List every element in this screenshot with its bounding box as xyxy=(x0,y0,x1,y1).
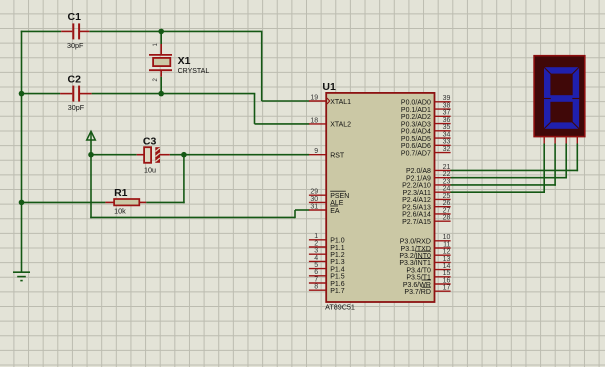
svg-text:P0.1/AD1: P0.1/AD1 xyxy=(401,107,431,114)
svg-text:AT89C51: AT89C51 xyxy=(325,303,355,312)
wire XTAL1 horizontal to pin 19 xyxy=(262,100,310,102)
junction power arrow / RST node xyxy=(88,152,94,158)
pin 14 P3.4/T0 (right) xyxy=(406,263,450,274)
pin 39 P0.0/AD0 (right) xyxy=(401,95,451,106)
pin 30 ALE (left) xyxy=(309,196,344,207)
svg-text:P0.6/AD6: P0.6/AD6 xyxy=(401,143,431,150)
svg-text:15: 15 xyxy=(443,270,451,277)
svg-text:11: 11 xyxy=(443,241,450,248)
wire XTAL2 vertical drop xyxy=(254,94,256,124)
svg-text:5: 5 xyxy=(314,262,318,269)
svg-text:P0.5/AD5: P0.5/AD5 xyxy=(401,136,431,143)
pin 24 P2.3/A11 (right) xyxy=(403,186,451,197)
svg-text:P2.4/A12: P2.4/A12 xyxy=(402,197,431,204)
svg-text:35: 35 xyxy=(443,124,451,131)
wire EA row horizontal xyxy=(90,216,295,218)
svg-text:29: 29 xyxy=(310,189,318,196)
pin 34 P0.5/AD5 (right) xyxy=(401,132,451,143)
svg-text:36: 36 xyxy=(443,117,451,124)
wire left ground rail vertical xyxy=(21,31,23,273)
clock chevron on pin XTAL1 xyxy=(327,98,330,104)
pin 4 P1.3 (left) xyxy=(309,255,345,266)
svg-text:RST: RST xyxy=(330,153,345,160)
wire P2.3 to display pin xyxy=(450,191,545,193)
capacitor C1 xyxy=(61,23,89,39)
svg-text:37: 37 xyxy=(443,110,451,117)
capacitor C2 xyxy=(60,86,92,102)
pin 25 P2.4/A12 (right) xyxy=(402,193,451,204)
wire power arrow vertical xyxy=(90,140,92,218)
pin 3 P1.2 (left) xyxy=(309,248,345,259)
pin 16 P3.6/WR (right) xyxy=(403,277,451,288)
pin 18 XTAL2 (left) xyxy=(309,117,351,128)
svg-text:XTAL1: XTAL1 xyxy=(330,99,351,106)
pin 11 P3.1/TXD (right) xyxy=(401,241,451,252)
pin 2 P1.1 (left) xyxy=(309,240,345,251)
svg-text:18: 18 xyxy=(310,117,318,124)
wire C1 row right segment to XTAL1 corner xyxy=(89,30,262,32)
svg-text:PSEN: PSEN xyxy=(330,193,349,200)
wire display pin 1 vertical xyxy=(543,144,545,193)
pin 23 P2.2/A10 (right) xyxy=(402,178,451,189)
svg-text:P1.7: P1.7 xyxy=(330,288,345,295)
pin 31 EA (left) xyxy=(309,203,340,214)
wire XTAL1 vertical drop xyxy=(261,31,263,101)
IC U1 AT89C51 body xyxy=(326,93,434,302)
svg-text:P1.5: P1.5 xyxy=(330,274,345,281)
svg-text:P1.3: P1.3 xyxy=(330,259,345,266)
pin 6 P1.5 (left) xyxy=(309,269,345,280)
svg-text:9: 9 xyxy=(314,148,318,155)
display pin 2 stub xyxy=(554,137,556,144)
wire RST row from C3 to pin 9 xyxy=(170,154,310,156)
svg-text:P2.2/A10: P2.2/A10 xyxy=(402,183,431,190)
svg-text:P0.3/AD3: P0.3/AD3 xyxy=(401,121,431,128)
svg-text:XTAL2: XTAL2 xyxy=(330,122,351,129)
svg-text:22: 22 xyxy=(443,171,451,178)
segment digit 8 (all segments) xyxy=(547,70,576,125)
pin 9 RST (left) xyxy=(309,148,345,159)
svg-text:P1.0: P1.0 xyxy=(330,238,345,245)
svg-text:10k: 10k xyxy=(114,206,126,215)
wire C2 row right segment to XTAL2 corner xyxy=(92,93,256,95)
wire C3 junction down to R1 row xyxy=(183,155,185,204)
svg-text:1: 1 xyxy=(314,233,318,240)
svg-text:P1.4: P1.4 xyxy=(330,266,345,273)
svg-text:10: 10 xyxy=(443,234,451,241)
svg-text:24: 24 xyxy=(443,186,451,193)
pin 37 P0.2/AD2 (right) xyxy=(401,110,451,121)
svg-text:P3.5/T1: P3.5/T1 xyxy=(406,275,431,282)
junction C3 right / R1 node xyxy=(181,152,187,158)
display pin 3 stub xyxy=(565,137,567,144)
svg-text:14: 14 xyxy=(443,263,451,270)
pin 13 P3.3/INT1 (right) xyxy=(399,256,450,267)
svg-text:P3.0/RXD: P3.0/RXD xyxy=(400,239,431,246)
svg-text:34: 34 xyxy=(443,132,451,139)
wire EA to pin 31 xyxy=(295,209,309,211)
svg-text:30: 30 xyxy=(310,196,318,203)
wire P2.2 to display pin xyxy=(450,184,556,186)
svg-text:P2.0/A8: P2.0/A8 xyxy=(406,168,431,175)
svg-text:3: 3 xyxy=(314,248,318,255)
svg-text:33: 33 xyxy=(443,139,451,146)
svg-text:4: 4 xyxy=(314,255,318,262)
svg-text:28: 28 xyxy=(443,215,451,222)
svg-text:P0.7/AD7: P0.7/AD7 xyxy=(401,150,431,157)
svg-text:19: 19 xyxy=(310,94,318,101)
svg-text:EA: EA xyxy=(330,208,340,215)
svg-text:6: 6 xyxy=(314,269,318,276)
wire R1 row left segment xyxy=(22,201,106,203)
pin 15 P3.5/T1 (right) xyxy=(406,270,450,281)
wire crystal bottom green segment xyxy=(160,77,162,94)
svg-text:P3.7/RD: P3.7/RD xyxy=(404,289,430,296)
junction crystal top / C1 node xyxy=(158,29,164,35)
display pin 4 stub xyxy=(576,137,578,144)
svg-text:P2.3/A11: P2.3/A11 xyxy=(403,190,431,197)
svg-text:2: 2 xyxy=(314,240,318,247)
crystal X1 xyxy=(149,44,172,77)
wire EA step vertical xyxy=(294,210,296,218)
svg-text:C2: C2 xyxy=(68,74,82,86)
svg-text:27: 27 xyxy=(443,207,451,214)
svg-text:31: 31 xyxy=(310,203,318,210)
svg-text:21: 21 xyxy=(443,164,451,171)
junction R1 left / ground rail xyxy=(19,200,25,206)
svg-text:P0.2/AD2: P0.2/AD2 xyxy=(401,114,431,121)
svg-text:P3.3/INT1: P3.3/INT1 xyxy=(399,260,431,267)
svg-text:P2.7/A15: P2.7/A15 xyxy=(402,219,431,226)
svg-text:P3.1/TXD: P3.1/TXD xyxy=(401,246,431,253)
wire P2.0 to display pin xyxy=(450,169,578,171)
svg-text:P3.6/WR: P3.6/WR xyxy=(403,282,431,289)
svg-text:30pF: 30pF xyxy=(68,103,85,112)
pin 10 P3.0/RXD (right) xyxy=(400,234,451,245)
wire XTAL2 horizontal to pin 18 xyxy=(255,123,310,125)
wire RST row from power rail to C3 xyxy=(91,154,137,156)
svg-text:16: 16 xyxy=(443,277,451,284)
svg-text:P1.2: P1.2 xyxy=(330,252,345,259)
pin 22 P2.1/A9 (right) xyxy=(406,171,451,182)
svg-text:P0.0/AD0: P0.0/AD0 xyxy=(401,100,431,107)
svg-text:12: 12 xyxy=(443,249,451,256)
pin 7 P1.6 (left) xyxy=(309,276,345,287)
wire crystal top green segment xyxy=(160,31,162,44)
svg-text:38: 38 xyxy=(443,103,451,110)
wire display pin 2 vertical xyxy=(554,144,556,186)
svg-text:P3.2/INT0: P3.2/INT0 xyxy=(399,253,431,260)
segment joint notches xyxy=(543,66,580,129)
svg-text:30pF: 30pF xyxy=(67,41,84,50)
pin 17 P3.7/RD (right) xyxy=(404,285,450,296)
svg-text:CRYSTAL: CRYSTAL xyxy=(178,68,210,75)
capacitor C3 xyxy=(137,147,170,163)
pin 21 P2.0/A8 (right) xyxy=(406,164,451,175)
power symbol (VCC arrow) xyxy=(87,131,96,140)
ground xyxy=(13,272,30,280)
svg-text:13: 13 xyxy=(443,256,451,263)
display pin 1 stub xyxy=(543,137,545,144)
pin 8 P1.7 (left) xyxy=(309,284,345,295)
svg-text:C1: C1 xyxy=(68,11,82,23)
wire display pin 3 vertical xyxy=(565,144,567,179)
pin 35 P0.4/AD4 (right) xyxy=(401,124,451,135)
pin 19 XTAL1 (left) xyxy=(309,94,351,105)
svg-text:P1.6: P1.6 xyxy=(330,281,345,288)
svg-text:P2.1/A9: P2.1/A9 xyxy=(406,176,431,183)
wire C1 row left segment xyxy=(21,30,62,32)
svg-text:39: 39 xyxy=(443,95,451,102)
svg-text:17: 17 xyxy=(443,285,451,292)
pin 27 P2.6/A14 (right) xyxy=(402,207,451,218)
pin 5 P1.4 (left) xyxy=(309,262,345,273)
svg-text:P2.5/A13: P2.5/A13 xyxy=(402,205,431,212)
svg-text:X1: X1 xyxy=(178,55,191,67)
svg-text:32: 32 xyxy=(443,146,451,153)
svg-text:P0.4/AD4: P0.4/AD4 xyxy=(401,129,431,136)
pin 1 P1.0 (left) xyxy=(309,233,345,244)
junction crystal bottom / C2 node xyxy=(158,91,164,97)
svg-text:P3.4/T0: P3.4/T0 xyxy=(406,267,431,274)
svg-text:10u: 10u xyxy=(144,165,156,174)
pin 33 P0.6/AD6 (right) xyxy=(401,139,451,150)
svg-text:25: 25 xyxy=(443,193,451,200)
svg-text:7: 7 xyxy=(314,276,318,283)
wire display pin 4 vertical xyxy=(576,144,578,172)
svg-text:P1.1: P1.1 xyxy=(330,245,345,252)
resistor R1 xyxy=(105,199,146,205)
svg-text:R1: R1 xyxy=(114,187,128,199)
pin 36 P0.3/AD3 (right) xyxy=(401,117,451,128)
wire R1 row right segment xyxy=(146,201,185,203)
pin 29 PSEN (left) xyxy=(309,189,349,200)
svg-text:C3: C3 xyxy=(143,136,157,148)
wire P2.1 to display pin xyxy=(450,177,567,179)
svg-text:8: 8 xyxy=(314,284,318,291)
svg-text:23: 23 xyxy=(443,178,451,185)
pin 26 P2.5/A13 (right) xyxy=(402,200,451,211)
pin 32 P0.7/AD7 (right) xyxy=(401,146,451,157)
pin 12 P3.2/INT0 (right) xyxy=(399,249,450,260)
svg-text:U1: U1 xyxy=(322,81,336,93)
pin 38 P0.1/AD1 (right) xyxy=(401,103,451,114)
7-segment display body xyxy=(534,56,585,137)
junction C2 left / ground rail xyxy=(19,91,25,97)
svg-text:26: 26 xyxy=(443,200,451,207)
pin 28 P2.7/A15 (right) xyxy=(402,215,451,226)
svg-text:P2.6/A14: P2.6/A14 xyxy=(402,212,431,219)
wire C2 row left segment xyxy=(21,93,60,95)
